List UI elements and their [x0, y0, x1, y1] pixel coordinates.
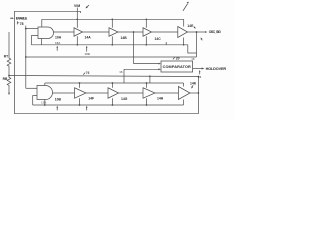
svg-text:20: 20 — [176, 57, 180, 61]
wire comparator input2 horizontal — [124, 68, 159, 70]
node dot bus2 lower x=79.5 — [79, 104, 81, 106]
wire comparator input1 riser (from row1 node down) — [133, 32, 135, 64]
wire AND2 top input — [26, 87, 37, 89]
wire tap top inverter 14A — [76, 19, 78, 27]
wire divider top vertical — [8, 32, 10, 55]
wire divider tap line to right edge (y=75.5..76.5) — [9, 76, 198, 77]
wire ENABLE vertical (x=25.8 down to row2 AND input) — [25, 26, 27, 89]
node VIM label — [74, 4, 80, 8]
wire AND1 output to inverter 14A — [54, 31, 75, 33]
wire 14F output to 14G — [86, 92, 108, 94]
svg-text:14A: 14A — [85, 35, 92, 39]
node junction dot feedback/enable vertical — [25, 56, 27, 58]
node dot bus2 x=79.5 — [79, 82, 81, 84]
node dot bus2 x=112.4 — [112, 82, 114, 84]
resistor RT label — [4, 55, 8, 59]
wire VIM lead arrow — [87, 5, 89, 7]
wire tap top inverter 14K — [183, 83, 185, 87]
node dot bus1 x=77.3 — [76, 44, 78, 46]
svg-text:16B: 16B — [85, 52, 90, 56]
node label 14H — [157, 97, 164, 101]
node lead arrow under bus2 at x=86.7 — [86, 107, 88, 110]
svg-text:16: 16 — [119, 70, 123, 74]
wire figure pointer arrow (top right) — [183, 4, 188, 11]
inverter 14G — [108, 88, 119, 99]
node dot row2 output on right edge — [198, 92, 200, 94]
wire left edge of loop (x=14.4) — [13, 11, 15, 113]
wire row1 lower bus (y=44.8) — [31, 45, 196, 53]
wire tap top inverter 14E — [183, 19, 185, 26]
svg-text:COMPARATOR: COMPARATOR — [163, 65, 191, 69]
node label 10B — [55, 98, 62, 102]
node divider line junction dot at x=149.9 — [149, 75, 151, 77]
wire tap top inverter 14C — [145, 19, 147, 27]
svg-text:14E: 14E — [187, 24, 194, 28]
wire 14G output to 14H — [119, 92, 144, 94]
wire tap top inverter 14H — [146, 83, 148, 88]
node label 14K — [190, 81, 197, 85]
node lead arrow under bus2 at x=57.2 — [56, 107, 58, 110]
wire tap top inverter 14G — [111, 83, 113, 88]
node dot divider line on right edge — [198, 76, 200, 78]
wire tap bottom inverter 14B — [111, 36, 113, 45]
node label 16A — [55, 41, 61, 45]
inverter 14A — [74, 28, 83, 37]
wire comparator input2 riser (from row2 bus up) — [123, 69, 125, 83]
svg-text:76: 76 — [86, 71, 90, 75]
wire tap top inverter 14B — [111, 19, 113, 27]
wire lead arrow into left edge (VIM tap for divider) — [10, 17, 12, 19]
resistor RB label — [3, 77, 8, 81]
wire AND2 bottom input from bottom edge — [33, 96, 37, 105]
svg-text:16A: 16A — [55, 41, 61, 45]
node junction dot enable/AND1 — [25, 28, 27, 30]
wire AND1 bottom tap — [41, 39, 43, 45]
node label 16B — [85, 52, 90, 56]
wire tap bottom inverter 14G — [111, 98, 113, 105]
node lead arrow at output junction — [201, 39, 204, 40]
svg-text:10B: 10B — [55, 98, 62, 102]
svg-text:14G: 14G — [121, 97, 128, 101]
svg-text:18: 18 — [191, 57, 195, 61]
inverter 14K (row2 output driver) — [178, 87, 190, 100]
node dot bus1 x=146.3 — [145, 44, 147, 46]
node label 10A — [55, 36, 62, 40]
wire tap bottom inverter 14K — [183, 100, 185, 106]
inverter 14F (row2 first) — [75, 88, 87, 99]
and-gate U10B (row2 NAND) — [37, 86, 53, 100]
wire 14H output to 14K — [155, 92, 178, 94]
wire rail drop to starve bus at x=77.3 — [76, 11, 78, 19]
wire tap bottom inverter 14F — [79, 98, 81, 105]
svg-text:OSC_SIG: OSC_SIG — [209, 30, 221, 34]
wire RT to tap junction — [8, 68, 10, 76]
wire row1 feedback drop (x=196.5) — [196, 32, 198, 57]
wire tap bottom inverter 14E — [183, 38, 185, 45]
node dot bus2 lower x=112.4 — [112, 104, 114, 106]
svg-text:12B: 12B — [41, 101, 46, 105]
wire AND2 top tap — [44, 83, 46, 86]
node label 14B — [121, 36, 128, 40]
wire 14K output wrap to right edge — [190, 92, 198, 94]
node dot bus2 x=146.5 — [146, 82, 148, 84]
node label 14E — [187, 24, 194, 28]
wire 14C output to 14E — [152, 31, 178, 33]
node dot starve bus x=77.3 — [76, 18, 78, 20]
wire AND1 bottom input from bus1 left corner — [31, 36, 38, 45]
wire stub on bus1 at x=166 — [165, 42, 167, 45]
node junction dot comparator input1 riser — [133, 31, 135, 33]
node numeral 76 near divider line — [83, 73, 85, 75]
node lead arrow under bus1 at x=86.7 — [86, 48, 88, 52]
inverter 14H — [143, 88, 155, 99]
wire tap top inverter 14F — [79, 83, 81, 88]
and-gate U10A (row1 NAND) — [38, 27, 54, 39]
wire 14B output to 14C — [118, 31, 143, 33]
svg-text:78: 78 — [20, 22, 24, 26]
node dot bus2 lower x=44.8 — [44, 104, 46, 106]
svg-text:14B: 14B — [121, 36, 128, 40]
svg-text:14C: 14C — [155, 37, 162, 41]
node label 14C — [155, 37, 162, 41]
wire tap bottom inverter 14A — [76, 36, 78, 45]
wire AND1 top tap — [41, 19, 43, 27]
wire 14E output to OSC_SIG — [188, 31, 206, 33]
node label 14A — [85, 35, 92, 39]
node label 18 (near feedback corner) — [191, 57, 195, 61]
node dot starve bus x=112.3 — [111, 18, 113, 20]
node label COMPARATOR — [163, 65, 191, 69]
wire tap bottom inverter 14H — [146, 98, 148, 105]
inverter 14B — [109, 28, 118, 37]
svg-text:RT: RT — [4, 55, 8, 59]
node OSC_SIG label — [209, 30, 221, 34]
node label 16 (near input2 riser) — [119, 70, 123, 74]
node label 12B — [41, 101, 46, 105]
node ENABLE label — [16, 17, 28, 21]
node label 24 — [198, 75, 202, 79]
node dot bus1 x=183.6 — [183, 44, 185, 46]
wire rail end tick — [80, 11, 82, 13]
wire 14A output to 14B — [83, 31, 110, 33]
svg-text:14F: 14F — [88, 96, 94, 100]
svg-text:14H: 14H — [157, 97, 164, 101]
node label 14F — [88, 96, 94, 100]
wire comparator input1 horizontal — [134, 63, 160, 65]
node junction dot row1 output — [196, 31, 198, 33]
inverter 14C — [143, 28, 152, 37]
wire bottom edge of loop (y=113.7) — [14, 113, 198, 115]
wire AND2 output to inverter 14F — [53, 92, 75, 94]
wire RB bottom with down arrow — [8, 87, 10, 93]
wire 14E lead arrow — [193, 26, 196, 29]
node dot starve bus x=146.3 — [145, 18, 147, 20]
node divider tap junction dot — [8, 75, 10, 77]
wire AND2 bottom tap — [44, 100, 46, 106]
svg-text:14K: 14K — [190, 81, 197, 85]
wire row1 starve bus (y=19.3) — [42, 18, 184, 20]
wire 14K lead arrow — [192, 85, 193, 87]
wire row2 power bus (y=83) — [45, 82, 184, 84]
wire tap bottom inverter 14C — [145, 36, 147, 45]
wire VIM stub to rail — [76, 8, 78, 12]
wire row1 feedback line (y=57) — [26, 56, 197, 58]
comparator U20 box — [161, 61, 193, 72]
node dot bus2 lower x=146.5 — [146, 104, 148, 106]
inverter 14E (output driver) — [178, 27, 188, 38]
svg-text:VIM: VIM — [74, 4, 80, 8]
wire VIM supply rail (top, y=11.3 from left edge to x=80.5) — [14, 10, 80, 12]
svg-text:10A: 10A — [55, 36, 62, 40]
wire drop from divider line to row2 bus — [149, 76, 151, 83]
node lead arrow 24 under output wire — [199, 72, 201, 75]
wire AND1 top input — [26, 28, 38, 30]
node lead arrow under bus1 at x=57.2 — [56, 48, 58, 51]
resistor RT — [7, 55, 11, 68]
node reference numeral 20 with lead tick — [173, 57, 175, 60]
node reference numeral 78 with lead tick — [17, 21, 19, 24]
wire row2 lower bus (y=105) — [33, 104, 184, 106]
node dot bus1 x=112.3 — [111, 44, 113, 46]
svg-text:HOLDOVER: HOLDOVER — [206, 67, 227, 71]
node label 14G — [121, 97, 128, 101]
svg-text:ENABLE: ENABLE — [16, 17, 28, 21]
node HOLDOVER label — [206, 67, 227, 71]
resistor RB — [7, 76, 11, 87]
wire comparator output to HOLDOVER — [193, 68, 202, 70]
wire right edge lower (x=198.4 from divider line to bottom) — [197, 77, 199, 114]
